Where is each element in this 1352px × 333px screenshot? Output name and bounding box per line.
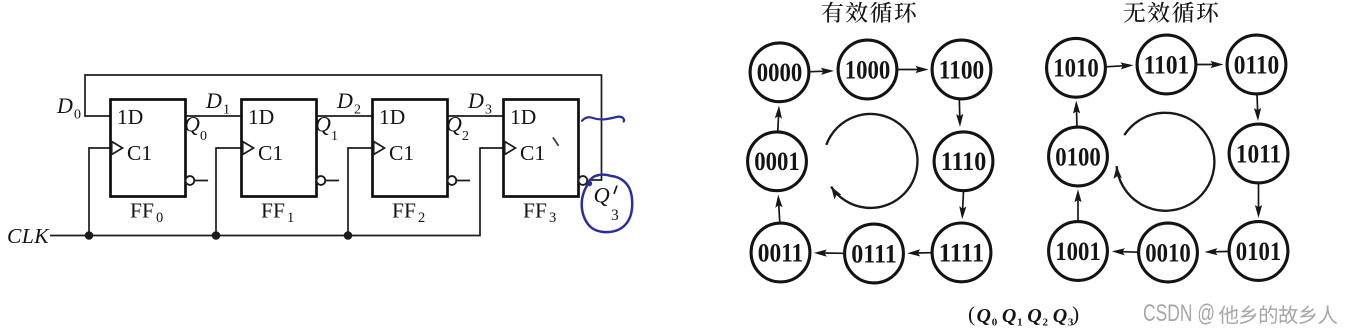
svg-text:1: 1 bbox=[287, 210, 294, 226]
svg-text:3: 3 bbox=[611, 207, 619, 224]
svg-text:D: D bbox=[56, 93, 73, 118]
svg-text:3: 3 bbox=[549, 210, 556, 226]
svg-text:0000: 0000 bbox=[757, 58, 803, 87]
svg-text:CSDN @: CSDN @ bbox=[1143, 300, 1215, 327]
svg-text:FF: FF bbox=[523, 199, 547, 223]
svg-text:1011: 1011 bbox=[1236, 139, 1282, 168]
svg-text:1101: 1101 bbox=[1144, 50, 1190, 79]
svg-text:Q: Q bbox=[1053, 305, 1067, 327]
svg-text:1100: 1100 bbox=[939, 55, 985, 84]
svg-text:CLK: CLK bbox=[7, 224, 50, 248]
svg-text:Q: Q bbox=[315, 112, 331, 137]
svg-text:D: D bbox=[205, 88, 222, 113]
svg-text:(: ( bbox=[968, 302, 975, 326]
svg-text:Q: Q bbox=[594, 183, 610, 208]
svg-text:1000: 1000 bbox=[845, 55, 891, 84]
svg-text:1D: 1D bbox=[117, 105, 143, 129]
svg-text:0: 0 bbox=[992, 317, 998, 329]
svg-text:0110: 0110 bbox=[1234, 50, 1280, 79]
svg-text:C1: C1 bbox=[127, 141, 152, 165]
svg-text:2: 2 bbox=[1043, 317, 1049, 329]
svg-text:Q: Q bbox=[1002, 305, 1016, 327]
svg-text:D: D bbox=[336, 88, 353, 113]
svg-text:FF: FF bbox=[130, 199, 154, 223]
svg-text:1110: 1110 bbox=[941, 147, 987, 176]
svg-text:1D: 1D bbox=[248, 105, 274, 129]
svg-text:3: 3 bbox=[485, 103, 492, 118]
svg-text:0101: 0101 bbox=[1236, 237, 1282, 266]
svg-text:0111: 0111 bbox=[851, 239, 897, 268]
svg-text:0: 0 bbox=[74, 108, 81, 123]
svg-text:0010: 0010 bbox=[1145, 238, 1191, 267]
svg-text:2: 2 bbox=[354, 103, 361, 118]
svg-text:1D: 1D bbox=[379, 105, 405, 129]
svg-text:): ) bbox=[1072, 302, 1079, 326]
svg-text:0: 0 bbox=[200, 129, 207, 144]
svg-text:1D: 1D bbox=[510, 105, 536, 129]
svg-text:C1: C1 bbox=[389, 141, 414, 165]
svg-text:1001: 1001 bbox=[1055, 237, 1101, 266]
svg-text:2: 2 bbox=[462, 129, 469, 144]
svg-text:0011: 0011 bbox=[758, 238, 804, 267]
svg-text:C1: C1 bbox=[258, 141, 283, 165]
svg-text:2: 2 bbox=[418, 210, 425, 226]
svg-text:C1: C1 bbox=[520, 141, 545, 165]
svg-text:1: 1 bbox=[1017, 317, 1023, 329]
svg-text:Q: Q bbox=[977, 305, 991, 327]
svg-text:FF: FF bbox=[392, 199, 416, 223]
svg-text:1111: 1111 bbox=[939, 238, 985, 267]
svg-text:1: 1 bbox=[331, 129, 338, 144]
svg-text:D: D bbox=[467, 88, 484, 113]
svg-text:Q: Q bbox=[184, 112, 200, 137]
svg-text:Q: Q bbox=[1027, 305, 1041, 327]
svg-text:0100: 0100 bbox=[1055, 142, 1101, 171]
svg-text:FF: FF bbox=[261, 199, 285, 223]
svg-text:Q: Q bbox=[446, 112, 462, 137]
svg-text:0001: 0001 bbox=[754, 147, 800, 176]
svg-text:1: 1 bbox=[223, 103, 230, 118]
svg-text:1010: 1010 bbox=[1053, 54, 1099, 83]
svg-text:0: 0 bbox=[156, 210, 163, 226]
